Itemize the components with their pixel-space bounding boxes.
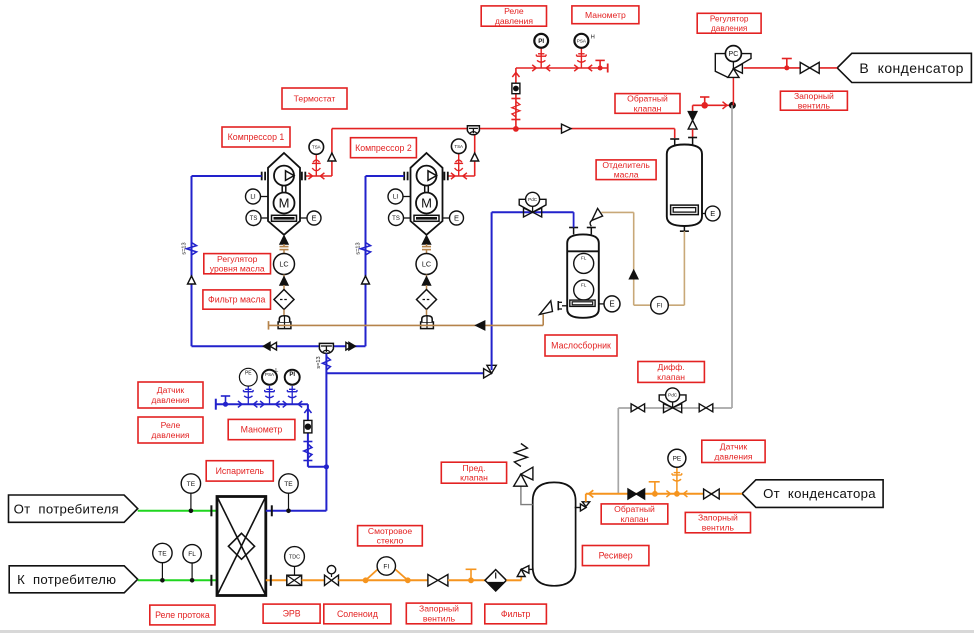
discharge flange [301, 172, 303, 181]
wire liquid [339, 579, 428, 581]
svg-text:Фильтр: Фильтр [501, 609, 531, 619]
svg-text:давления: давления [714, 451, 753, 461]
svg-text:Компрессор 2: Компрессор 2 [355, 143, 412, 153]
wire manifold branch [308, 466, 327, 468]
label Маслосборник [545, 335, 617, 356]
svg-text:стекло: стекло [377, 536, 404, 546]
strainer bowl on header junction [467, 126, 479, 135]
flow switch FL [183, 545, 201, 563]
svg-text:FI: FI [383, 563, 389, 570]
TSA1 connection [315, 154, 317, 176]
vibration absorber [512, 102, 520, 118]
motor M circle [274, 193, 295, 214]
wire compressor1 riser [331, 129, 333, 176]
svg-text:E: E [454, 214, 459, 223]
svg-text:LC: LC [422, 260, 431, 269]
svg-text:От потребителя: От потребителя [14, 501, 119, 516]
label Регулятор давления [697, 13, 761, 33]
wire gauge header [516, 67, 608, 69]
svg-text:Манометр: Манометр [241, 425, 283, 435]
oil filter diamond [274, 290, 294, 310]
union chevrons PI [532, 65, 536, 71]
flag От конденсатора [742, 480, 883, 508]
oil outlet arrow [423, 236, 431, 244]
svg-text:Соленоид: Соленоид [337, 609, 378, 619]
safety valve line [521, 486, 533, 504]
collector float FL upper [574, 253, 594, 273]
flow arrow up riser1 [328, 153, 336, 161]
temperature switch TS [261, 217, 268, 219]
shaft [424, 186, 426, 193]
gauge valve tcap [595, 59, 604, 61]
wire oil drain collector [542, 315, 544, 326]
union chevrons PI [283, 401, 287, 407]
elbow arrows [484, 369, 492, 378]
FL dot [190, 578, 195, 583]
svg-text:E: E [311, 214, 316, 223]
TE stem out [161, 563, 163, 581]
pressure controller PC [725, 46, 741, 62]
angle valve to collector [592, 208, 603, 220]
wire receiver out up [585, 494, 587, 502]
compressor fan circle [417, 166, 437, 186]
separator drain flange [683, 226, 685, 231]
wire gray drop to liquid line [617, 408, 619, 494]
label Пред. клапан [441, 462, 506, 483]
vibration absorber C2 [361, 243, 371, 256]
label Компрессор 2 [351, 138, 417, 158]
label ЭРВ [263, 604, 320, 623]
TDC stem [294, 566, 296, 575]
separator heater E [702, 213, 706, 215]
label Реле давления (left) [138, 417, 203, 443]
flow chevron right [723, 102, 728, 109]
separator sight glass [671, 205, 699, 215]
node PC junction [729, 102, 736, 109]
svg-text:H: H [591, 35, 595, 41]
evap liquid flange [270, 575, 272, 586]
flow indicator FI [651, 296, 669, 314]
wire liquid to receiver [506, 579, 521, 581]
collector inlet flange right [587, 227, 596, 229]
collector drain bracket [557, 301, 559, 310]
collector float FL lower [574, 280, 594, 300]
svg-text:Реле: Реле [161, 420, 181, 430]
shutoff valve liquid supply [704, 489, 712, 499]
svg-text:TE: TE [158, 550, 167, 557]
svg-text:PC: PC [729, 51, 739, 58]
thermal switch TSA2 [451, 139, 466, 154]
wire separator out to regulator [692, 105, 694, 112]
pressure instrument PE [239, 368, 257, 386]
oil collector vessel (Маслосборник) [567, 234, 599, 317]
sight glass FI [377, 557, 395, 575]
label Испаритель [206, 461, 273, 481]
pressure instrument PSA [262, 370, 277, 385]
vibration absorber riser [322, 357, 330, 371]
oil level regulator LC [416, 254, 437, 275]
svg-text:PdC: PdC [668, 393, 678, 398]
svg-text:s=13: s=13 [316, 356, 322, 368]
svg-text:Обратный: Обратный [614, 504, 655, 514]
label Ресивер [582, 546, 649, 566]
TSA2 connection [458, 154, 460, 176]
TE dot out [160, 578, 165, 583]
wire liquid [302, 579, 325, 581]
label Манометр (middle) [228, 419, 295, 439]
label Манометр (top) [572, 6, 639, 24]
svg-text:Манометр: Манометр [585, 10, 626, 20]
svg-text:TE: TE [187, 481, 196, 488]
label Смотровое стекло [358, 526, 423, 546]
TE dot suction [286, 509, 291, 514]
svg-text:s=13: s=13 [356, 242, 362, 254]
sight glass on riser [512, 83, 520, 94]
wire suction downcomer C1 [191, 176, 193, 346]
shutoff valve right [699, 404, 706, 412]
bottom gray strip [0, 630, 974, 633]
temperature switch TS [404, 217, 411, 219]
evaporator (Испаритель) [217, 497, 266, 596]
svg-text:Маслосборник: Маслосборник [551, 341, 611, 351]
oil outlet arrow [280, 236, 288, 244]
shutoff valve liquid [428, 575, 438, 587]
arrows left [264, 342, 271, 350]
wire manifold vertical [307, 404, 309, 467]
flow arrow up [280, 277, 288, 285]
separator outlet flange [688, 137, 697, 139]
pressure regulator PC valve [715, 54, 728, 78]
fan rotor triangle [286, 171, 295, 181]
wire oil-return branch [326, 372, 491, 374]
svg-text:FL: FL [581, 282, 587, 287]
wire PdC horizontal [492, 211, 574, 213]
oil sight glass [272, 215, 297, 221]
receiver outlet [575, 507, 581, 509]
svg-text:PSA: PSA [577, 38, 587, 43]
label Датчик давления (left) [138, 382, 203, 408]
wire oil drain [683, 231, 685, 305]
svg-text:TSA: TSA [454, 144, 463, 149]
svg-text:Реле протока: Реле протока [155, 610, 210, 620]
wire suction C1 [192, 175, 262, 177]
wire suction C2 [366, 175, 405, 177]
wire red discharge header [332, 128, 675, 130]
svg-text:клапан: клапан [634, 103, 662, 113]
collector drain angle valve [540, 301, 553, 315]
label Запорный вентиль (top) [780, 91, 847, 111]
collector heater E [599, 303, 605, 305]
svg-text:уровня масла: уровня масла [210, 264, 265, 274]
label Отделитель масла [596, 160, 656, 180]
check valve (vertical) [688, 112, 697, 121]
pressure instrument PI [285, 370, 300, 385]
wire oil [426, 275, 428, 278]
receiver vessel (Ресивер) [533, 482, 576, 585]
flow triangle C1 [188, 276, 196, 284]
svg-text:Запорный: Запорный [794, 91, 834, 101]
shutoff valve to condenser [800, 62, 810, 73]
wire suction header [192, 345, 366, 347]
flange [511, 98, 520, 100]
sight glass [304, 420, 312, 433]
svg-text:В конденсатор: В конденсатор [859, 60, 964, 76]
svg-text:вентиль: вентиль [423, 613, 456, 623]
arrows right [346, 342, 353, 350]
union chevrons PSA [260, 401, 264, 407]
wire suction downcomer C2 [365, 176, 367, 346]
suction flange [261, 172, 263, 181]
flow arrow up [423, 277, 431, 285]
safety relief valve [514, 474, 528, 486]
wire PdC riser [491, 212, 493, 370]
oil flange [422, 246, 431, 248]
flag К потребителю [9, 566, 138, 593]
water out flange [210, 575, 212, 586]
wire compressor1 discharge [306, 175, 332, 177]
label Реле протока [150, 605, 215, 625]
wire oil return header [269, 324, 544, 326]
label Соленоид [324, 604, 391, 624]
svg-text:L: L [275, 368, 278, 374]
suction flange [403, 172, 405, 181]
collector sight glass [570, 300, 595, 306]
instrument connection [247, 386, 249, 404]
svg-text:Смотровое: Смотровое [368, 526, 412, 536]
compressor body hexagon [268, 153, 300, 235]
wire gray diff line [618, 407, 732, 409]
label Запорный вентиль (bottom) [406, 603, 471, 624]
label Обратный клапан (bottom) [601, 504, 668, 524]
svg-text:PdC: PdC [528, 197, 538, 202]
manometer connection PI [540, 48, 542, 68]
svg-text:Фильтр масла: Фильтр масла [208, 295, 265, 305]
svg-text:Компрессор 1: Компрессор 1 [228, 132, 285, 142]
vibration absorber C1 [187, 243, 197, 256]
oil charge connection [278, 322, 291, 329]
TE stem [190, 493, 192, 511]
svg-text:Пред.: Пред. [463, 463, 486, 473]
label Запорный вентиль (right) [685, 512, 750, 532]
PE connection [676, 467, 678, 494]
wire water out [138, 579, 217, 581]
diff pressure valve PdC (oil return) [519, 199, 532, 212]
separator inlet flange [670, 138, 679, 140]
filter drier diamond [485, 570, 506, 591]
svg-text:давления: давления [151, 395, 190, 405]
wire liquid line [266, 579, 287, 581]
wire compressor2 discharge [448, 175, 474, 177]
flag В конденсатор [837, 53, 971, 82]
wire header drop to separator [674, 129, 676, 138]
shutoff valve left [631, 404, 638, 412]
manifold end bar [215, 399, 217, 410]
svg-text:Реле: Реле [504, 6, 524, 16]
svg-text:E: E [710, 209, 715, 218]
wire water in [138, 510, 217, 512]
wire oil to header [426, 310, 428, 316]
svg-text:TE: TE [284, 481, 293, 488]
node PI/PSA branch [513, 126, 519, 132]
end bar [607, 64, 609, 73]
receiver inlet elbow arrows [517, 569, 525, 576]
temperature sensor TE [181, 474, 200, 493]
manifold service tcap [221, 395, 230, 397]
level indicator LI [403, 196, 411, 198]
FL stem [191, 563, 193, 580]
svg-text:FL: FL [188, 551, 196, 558]
svg-text:От конденсатора: От конденсатора [763, 486, 876, 501]
svg-text:Обратный: Обратный [627, 94, 668, 104]
svg-text:s=13: s=13 [182, 242, 188, 254]
svg-text:LI: LI [393, 194, 399, 201]
svg-text:TSA: TSA [312, 145, 321, 150]
svg-text:M: M [279, 196, 290, 211]
safety valve spring [514, 444, 527, 467]
svg-text:Термостат: Термостат [294, 94, 336, 104]
svg-text:PSA: PSA [265, 372, 275, 377]
union chevrons PSA [574, 65, 578, 71]
label Датчик давления (right) [702, 440, 765, 462]
label Компрессор 1 [222, 127, 290, 147]
flange [511, 119, 520, 121]
wire liquid [448, 579, 485, 581]
wire PC to condenser [744, 67, 838, 69]
diff valve PdC [659, 395, 672, 408]
flag От потребителя [9, 495, 138, 522]
wire liquid supply line [586, 493, 742, 495]
wire oil to FI [634, 304, 685, 306]
expansion valve TXV (ЭРВ) [287, 575, 302, 585]
svg-text:К потребителю: К потребителю [17, 572, 116, 587]
service tcap [782, 58, 792, 60]
wire oil to collector [601, 211, 633, 213]
manometer PI [534, 34, 548, 48]
temperature sensor TE suction [279, 474, 298, 493]
svg-text:Отделитель: Отделитель [602, 160, 650, 170]
svg-text:LI: LI [250, 194, 256, 201]
flange [303, 441, 312, 443]
thermal switch TSA1 [309, 140, 324, 155]
svg-text:Ресивер: Ресивер [599, 551, 633, 561]
flow arrow up [630, 270, 638, 279]
label Дифф. клапан [638, 362, 705, 383]
svg-text:давления: давления [495, 16, 534, 26]
wire gray vertical from PC [731, 105, 733, 408]
svg-text:клапан: клапан [657, 372, 685, 382]
svg-text:вентиль: вентиль [798, 101, 831, 111]
heater E [300, 217, 307, 219]
wire oil [283, 285, 285, 290]
label Фильтр [485, 604, 547, 624]
heater E [443, 217, 450, 219]
shaft [281, 186, 283, 193]
fan rotor triangle [428, 171, 437, 181]
svg-text:LC: LC [279, 260, 288, 269]
wire evaporator suction out [266, 510, 327, 512]
wire instrument manifold [216, 403, 308, 405]
temperature sensor TE out [153, 543, 172, 562]
svg-text:PI: PI [538, 38, 544, 45]
svg-text:PE: PE [673, 456, 682, 463]
motor M circle [416, 193, 437, 214]
TE dot [189, 509, 194, 514]
svg-text:давления: давления [151, 430, 190, 440]
svg-text:клапан: клапан [621, 514, 649, 524]
flow arrow up riser2 [471, 153, 479, 161]
svg-text:M: M [421, 196, 432, 211]
instrument connection [291, 386, 293, 404]
wire suction riser [325, 354, 327, 511]
svg-text:Датчик: Датчик [720, 442, 748, 452]
svg-text:Датчик: Датчик [157, 385, 185, 395]
wire oil drop [426, 244, 428, 247]
union chevrons C2 [451, 173, 455, 179]
pressure switch connection PSA [580, 48, 582, 68]
wire oil [426, 285, 428, 290]
oil charge connection [421, 322, 434, 329]
service tcap [649, 481, 660, 483]
label Обратный клапан (top) [615, 94, 680, 114]
pressure switch PSA-H [574, 34, 588, 48]
oil filter diamond [417, 290, 437, 310]
sight glass bypass left [363, 577, 369, 583]
wire compressor2 riser [474, 129, 476, 176]
svg-text:E: E [609, 300, 614, 309]
instrument connection [269, 386, 271, 404]
svg-text:Запорный: Запорный [419, 604, 459, 614]
svg-text:клапан: клапан [460, 473, 488, 483]
solenoid valve [325, 575, 332, 585]
svg-text:Дифф.: Дифф. [658, 362, 685, 372]
check valve liquid [628, 489, 636, 499]
wire oil [283, 275, 285, 278]
svg-text:Регулятор: Регулятор [217, 254, 258, 264]
svg-text:Испаритель: Испаритель [216, 466, 265, 476]
svg-text:TS: TS [392, 216, 400, 222]
wire oil to header [283, 310, 285, 316]
wire oil up [633, 212, 635, 305]
wire collector to PdC [573, 212, 575, 227]
svg-text:TS: TS [250, 216, 258, 222]
discharge flange [443, 172, 445, 181]
water in flange [210, 505, 212, 516]
node suction manifold [324, 464, 329, 469]
oil sight glass [414, 215, 439, 221]
flow chevron up [304, 409, 311, 414]
collector inlet flange left [569, 227, 578, 229]
svg-text:ЭРВ: ЭРВ [283, 609, 301, 619]
svg-text:давления: давления [711, 24, 747, 33]
service tcap [700, 96, 709, 98]
label Реле давления (top) [481, 6, 546, 26]
oil level regulator LC [274, 254, 295, 275]
evap outlet flange [271, 505, 273, 516]
union chevrons C1 [308, 173, 312, 179]
flow arrow left [476, 321, 485, 330]
svg-text:TDC: TDC [289, 554, 300, 560]
service tcap liquid [466, 568, 477, 570]
wire PI/PSA riser [515, 68, 517, 129]
svg-text:Регулятор: Регулятор [710, 14, 749, 23]
label Регулятор уровня масла [204, 254, 271, 274]
TE stem suction [288, 493, 290, 511]
flow triangle C2 [362, 276, 370, 284]
check valve flow arrow on header [562, 124, 572, 133]
oil header end bar [268, 321, 270, 330]
label Фильтр масла [203, 290, 271, 309]
wire oil drop [283, 244, 285, 247]
